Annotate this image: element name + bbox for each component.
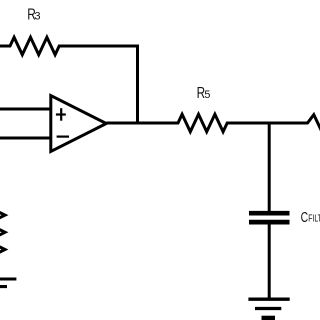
svg-text:C: C [301,210,309,226]
svg-text:5: 5 [204,89,210,101]
svg-text:FILTER: FILTER [308,214,320,225]
svg-text:3: 3 [34,11,40,23]
